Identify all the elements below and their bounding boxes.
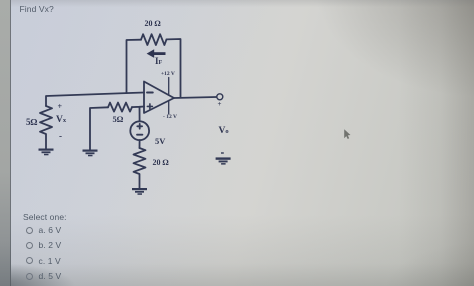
ground (Vo reference) — [216, 152, 231, 164]
label: + of Vx — [58, 102, 63, 111]
op-amp U1 — [144, 82, 174, 114]
option c — [26, 257, 33, 264]
ground (below R3) — [132, 188, 147, 195]
label: 5V — [155, 136, 165, 146]
label: - of Vx — [59, 131, 62, 141]
option d — [26, 273, 33, 280]
label: + at output terminal — [218, 100, 222, 108]
label: 20Ω (R3) — [153, 158, 169, 167]
current arrow IF — [147, 49, 166, 58]
option b — [26, 242, 33, 249]
label: Vx — [56, 115, 66, 125]
wire: inverting-input net (R1 top to op-amp − input) — [46, 93, 144, 107]
voltage source VS 5V — [130, 121, 149, 140]
+12V supply pin — [168, 78, 170, 96]
resistor RF 20Ω (feedback) — [141, 34, 167, 45]
select one — [23, 212, 67, 222]
resistor R2 5Ω (horizontal, to + input) — [108, 103, 132, 112]
label: +12 V — [161, 71, 175, 77]
resistor R1 5Ω (vertical, Vx across it) — [40, 106, 52, 149]
label: 20Ω (feedback) — [145, 19, 161, 28]
label: -12 V — [163, 114, 177, 120]
wire: feedback left vertical — [127, 40, 142, 93]
wire: feedback right vertical to output — [167, 39, 181, 97]
ground (below R1) — [39, 149, 54, 156]
label: 5Ω (R2) — [113, 114, 124, 124]
wire: non-inverting net riser from middle ground — [90, 107, 108, 149]
resistor R3 20Ω (vertical, below source) — [134, 148, 146, 188]
wire: node down to 5V source — [139, 107, 141, 122]
option a — [26, 227, 33, 234]
question text — [20, 4, 54, 14]
left dark strip (screen bezel edge) — [0, 0, 10, 286]
wire: op-amp output to terminal — [174, 97, 217, 98]
-12V supply pin — [168, 101, 170, 115]
wire: 5V source to R3 — [139, 140, 141, 148]
mouse cursor — [344, 129, 350, 139]
ground (middle) — [83, 150, 98, 157]
label: 5Ω (R1) — [26, 117, 37, 127]
output terminal (open circle) — [217, 94, 223, 100]
label: Vo — [219, 126, 229, 136]
wire: R2 to op-amp + input and node to source — [132, 106, 144, 109]
label: IF — [155, 56, 162, 66]
